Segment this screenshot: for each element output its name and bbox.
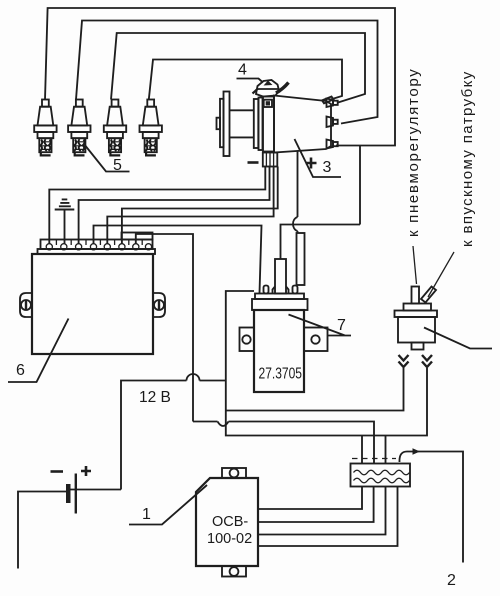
HV coil boot center [273, 259, 289, 294]
coil mounting bracket right tab [304, 328, 328, 352]
svg-text:7: 7 [337, 317, 346, 334]
label 4 with leader [237, 62, 264, 83]
cap terminal B3 [327, 140, 338, 149]
svg-text:2: 2 [447, 572, 456, 589]
dashed cover line above X2 [352, 458, 396, 460]
X2 output wire 4 to OCB [259, 487, 398, 547]
spark plug SP1 [34, 100, 56, 156]
label 2 wire with arrow [399, 448, 463, 589]
coil right boot [297, 233, 305, 285]
svg-text:к впускному патрубку: к впускному патрубку [459, 70, 476, 247]
ECU wire pin1 to distributor LT [49, 167, 265, 245]
ECU wire from pin4 to coil LT terminal [94, 226, 262, 294]
ECU left mounting ear [20, 293, 32, 317]
spark plug SP2 [68, 100, 90, 156]
svg-text:5: 5 [113, 157, 122, 174]
wire from cap B3 junction down right side [359, 146, 361, 225]
cap terminal B2 [327, 117, 338, 128]
wire horizontal to coil tower [281, 225, 361, 260]
distributor shaft [230, 110, 255, 137]
X2 output wire 1 to OCB [259, 487, 363, 510]
vertical label to intake pipe [428, 70, 476, 297]
control unit OCB-100-02 box [196, 468, 258, 577]
rotor item 4 on distributor top [253, 80, 289, 97]
wire X2 drop B [385, 436, 387, 464]
svg-text:к пневморегулятору: к пневморегулятору [405, 68, 422, 237]
solenoid leader to right edge [424, 328, 492, 349]
wire H3 node to solenoid right port [226, 368, 427, 436]
ECU wire pin3 to distributor LT [79, 167, 270, 245]
flow arrows below solenoid right [422, 355, 432, 367]
plus label at distributor LT connector [306, 158, 317, 169]
distributor cap [274, 96, 334, 153]
HT wire W1 plug1 to cap terminal B3 [45, 8, 395, 146]
svg-text:3: 3 [323, 159, 332, 176]
ECU wire pin7 down to connector X2 [136, 234, 374, 464]
ECU right mounting ear [153, 293, 165, 317]
ECU box 6 [32, 254, 153, 354]
svg-text:ОСВ-: ОСВ- [212, 514, 248, 530]
coil mounting bracket left tab [240, 328, 255, 352]
spark plug SP4 [140, 100, 162, 156]
battery GB [51, 466, 92, 514]
ground symbol at ECU pin2 [55, 199, 75, 244]
svg-text:4: 4 [238, 62, 247, 79]
wire H1 node to solenoid left port [226, 368, 404, 411]
flow arrows below solenoid left [399, 355, 409, 367]
HT wire W3 plug3 to cap terminal B1 [111, 33, 365, 103]
label 3 with leader [295, 139, 342, 177]
spark plug SP3 [104, 100, 126, 156]
ignition coil 7 [252, 286, 308, 393]
svg-text:6: 6 [16, 362, 25, 379]
HT wire W2 plug2 to cap terminal B2 [76, 21, 378, 124]
distributor pulley flange [217, 92, 230, 157]
ECU connector strip [38, 233, 156, 255]
ECU wire pin6 to distributor LT [122, 167, 278, 245]
label 1 with leader [129, 485, 207, 525]
label 6 with leader [8, 319, 69, 383]
solenoid valve assembly [395, 287, 438, 350]
wire battery minus to bottom left [18, 492, 66, 569]
svg-text:1: 1 [142, 506, 151, 523]
X2 output wire 3 to OCB [259, 487, 386, 535]
wire battery plus stub [71, 489, 122, 491]
HV wire from distributor to coil right boot [293, 152, 298, 234]
cap terminal B1 [327, 99, 338, 108]
minus label at distributor LT connector [248, 161, 259, 164]
X2 output wire 2 to OCB [259, 487, 374, 523]
wire X2 drop A [361, 436, 363, 464]
svg-text:100-02: 100-02 [207, 531, 252, 547]
vertical label to pneumoregulator [405, 68, 422, 284]
svg-text:27.3705: 27.3705 [259, 366, 303, 383]
node wire to coil top [226, 291, 254, 411]
connector X2 block [351, 464, 411, 487]
battery feed wire 12V from battery plus up and right [121, 374, 226, 490]
label 5 with leader [84, 144, 130, 174]
HT wire W4 plug4 to cap top entry [149, 60, 342, 100]
distributor body 3 [254, 97, 274, 152]
ECU wire pin5 to distributor LT [107, 167, 273, 245]
distributor LT connector block [263, 153, 278, 167]
label 7 with leader [289, 315, 352, 336]
svg-text:12 В: 12 В [139, 389, 171, 406]
